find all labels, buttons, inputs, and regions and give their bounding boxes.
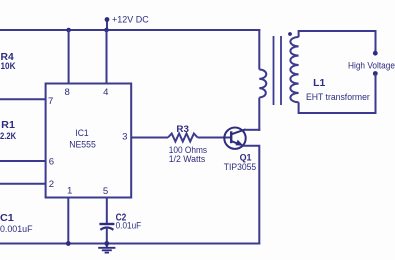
wire pin 8 to rail <box>68 30 70 84</box>
transformer core lines <box>274 36 282 105</box>
high voltage terminal dot bottom <box>373 71 378 76</box>
wire secondary top <box>299 31 376 53</box>
svg-text:0.01uF: 0.01uF <box>116 221 142 232</box>
Q1 base bar <box>230 131 232 143</box>
svg-text:8: 8 <box>65 87 70 98</box>
junction dot pin1 rail <box>66 241 71 246</box>
wire pin 3 to R3 <box>131 137 168 139</box>
wire pin 1 down <box>67 198 69 244</box>
svg-text:6: 6 <box>49 157 54 168</box>
svg-text:2.2K: 2.2K <box>0 131 16 142</box>
wire primary top drop <box>258 29 260 70</box>
op-amp IC1 NE555 box <box>46 84 132 198</box>
svg-text:R3: R3 <box>176 124 189 135</box>
svg-text:4: 4 <box>103 87 109 98</box>
wire pin 2 <box>0 183 46 185</box>
wire pin 4 to rail <box>106 30 108 84</box>
capacitor C2 top plate <box>99 223 114 225</box>
Q1 emitter line <box>231 141 239 144</box>
wire pin 6 <box>0 160 46 162</box>
inductor L1 primary winding <box>259 70 266 98</box>
svg-text:TIP3055: TIP3055 <box>224 162 256 173</box>
svg-text:+12V DC: +12V DC <box>112 15 149 26</box>
wire pin 7 <box>0 98 46 100</box>
transistor Q1 circle <box>224 128 245 149</box>
junction dot pin4 rail <box>104 28 109 33</box>
wire collector to primary <box>245 129 261 131</box>
svg-text:2: 2 <box>49 179 54 190</box>
svg-text:NE555: NE555 <box>69 140 96 151</box>
wire secondary bottom <box>299 74 376 114</box>
svg-text:EHT transformer: EHT transformer <box>306 92 371 103</box>
Q1 collector line <box>231 129 245 134</box>
inductor L1 secondary winding <box>290 37 298 102</box>
capacitor C2 curved plate <box>100 228 113 230</box>
svg-text:3: 3 <box>122 132 127 143</box>
svg-text:High Voltage: High Voltage <box>348 60 395 71</box>
wire R3 to Q1 base <box>198 137 231 139</box>
phase dot <box>288 32 292 36</box>
wire pin 5 down <box>106 198 108 225</box>
svg-text:10K: 10K <box>1 61 16 72</box>
wire primary bottom <box>258 98 260 131</box>
svg-text:1/2 Watts: 1/2 Watts <box>169 154 206 165</box>
Q1 emitter arrow <box>235 140 243 146</box>
high voltage terminal dot top <box>373 51 378 56</box>
svg-text:R1: R1 <box>1 120 15 131</box>
svg-text:1: 1 <box>67 186 72 197</box>
+12V terminal stub wire <box>106 19 108 30</box>
svg-text:L1: L1 <box>313 78 326 89</box>
wire C2 to rail <box>106 228 108 244</box>
svg-text:0.001uF: 0.001uF <box>0 224 33 235</box>
svg-text:7: 7 <box>48 96 53 107</box>
svg-text:5: 5 <box>103 186 108 197</box>
ground rail wire <box>0 243 260 245</box>
+12V terminal dot <box>105 17 110 22</box>
resistor R3 zigzag <box>168 134 198 142</box>
ground symbol <box>98 244 115 253</box>
svg-text:C1: C1 <box>0 213 14 224</box>
wire emitter to ground drop <box>243 146 260 244</box>
+12V supply rail wire <box>0 29 260 31</box>
svg-text:IC1: IC1 <box>75 128 88 139</box>
junction dot pin8 rail <box>66 28 71 33</box>
junction dot C2 rail <box>104 241 109 246</box>
